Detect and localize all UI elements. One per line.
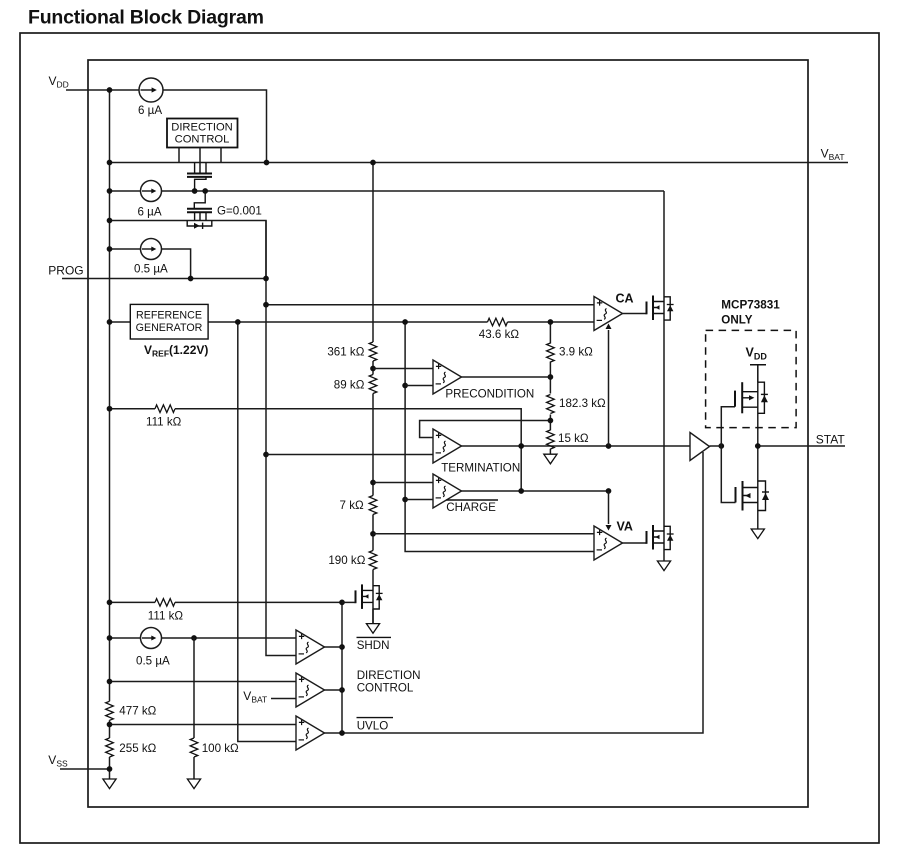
junction (521.2,446) <box>518 443 524 449</box>
svg-text:SHDN: SHDN <box>357 639 390 652</box>
junction (109.5,249) <box>107 246 113 252</box>
junction (109.5,602.4) <box>107 600 113 606</box>
wire mosfet rail 664 <box>663 191 665 561</box>
junction (266,278.5) <box>263 276 269 282</box>
junction (608.5,446) <box>606 443 612 449</box>
svg-text:255 kΩ: 255 kΩ <box>119 742 156 755</box>
buffer U8 <box>690 433 710 461</box>
ground below shdn fet <box>366 624 379 634</box>
junction (342,602.4) <box>339 600 345 606</box>
junction (109.5,220.5) <box>107 218 113 224</box>
junction (194,638) <box>191 635 197 641</box>
junction (194.6,191) <box>192 188 198 194</box>
transistor Q2 sense fet G=0.001 <box>187 191 212 229</box>
arrow into VA <box>606 491 612 531</box>
pin PROG wire <box>62 278 266 280</box>
ground below 15k <box>544 454 557 464</box>
current source I4 0.5uA <box>141 628 162 649</box>
wire ca out <box>623 313 647 315</box>
svg-text:0.5 µA: 0.5 µA <box>134 263 168 276</box>
svg-text:CHARGE: CHARGE <box>446 501 496 514</box>
svg-text:15 kΩ: 15 kΩ <box>558 432 589 445</box>
op-amp SHDN <box>296 630 325 664</box>
wire uvlo out <box>325 452 704 733</box>
transistor Q4 CA fet <box>647 296 674 321</box>
svg-text:477 kΩ: 477 kΩ <box>119 705 156 718</box>
wire 0.5uA row <box>110 249 191 279</box>
wire stat drive <box>462 445 691 447</box>
svg-text:STAT: STAT <box>816 433 846 447</box>
dashed box MCP73831 only <box>706 330 797 427</box>
op-amp CA <box>594 297 623 331</box>
wire resistor chain rail <box>372 163 374 624</box>
svg-text:100 kΩ: 100 kΩ <box>202 742 239 755</box>
wire 0.5uA2 row <box>110 637 297 639</box>
current source I1 6uA <box>139 78 163 102</box>
wire termination staple <box>420 421 551 438</box>
wire row3 <box>110 221 267 279</box>
svg-text:ONLY: ONLY <box>721 314 752 327</box>
resistor 89k <box>369 375 377 394</box>
junction (550.4,377) <box>548 374 554 380</box>
current source I2 6uA <box>141 181 162 202</box>
wire precond- <box>405 385 433 387</box>
wire dir out <box>325 689 343 691</box>
resistor 3.9k <box>547 343 555 362</box>
resistor 255k <box>106 738 114 757</box>
svg-text:190 kΩ: 190 kΩ <box>328 554 365 567</box>
svg-text:PROG: PROG <box>48 264 83 278</box>
svg-text:7 kΩ: 7 kΩ <box>340 499 364 512</box>
resistor 182.3k <box>547 395 555 414</box>
svg-text:111 kΩ: 111 kΩ <box>148 610 184 623</box>
ground below VSS <box>103 779 116 789</box>
resistor 111k b <box>155 599 175 607</box>
svg-text:DIRECTION: DIRECTION <box>357 669 421 682</box>
svg-text:DIRECTION: DIRECTION <box>171 122 233 134</box>
junction (373,482.5) <box>370 480 376 486</box>
junction (109.5,408.7) <box>107 406 113 412</box>
svg-text:GENERATOR: GENERATOR <box>136 322 203 334</box>
block REFERENCE GENERATOR <box>130 304 208 339</box>
resistor 477k <box>106 701 114 720</box>
wire buffer out <box>710 445 722 447</box>
pin VSS wire <box>60 769 110 779</box>
resistor 7k <box>369 496 377 515</box>
junction (109.5,769) <box>107 766 113 772</box>
wire vbat stub <box>271 698 296 700</box>
junction (342,690) <box>339 687 345 693</box>
svg-text:CA: CA <box>616 292 634 306</box>
op-amp UVLO <box>296 716 325 750</box>
svg-text:PRECONDITION: PRECONDITION <box>445 388 534 401</box>
junction (109.5,638) <box>107 635 113 641</box>
wire charge+ <box>373 482 433 484</box>
junction (405.1,385.5) <box>402 383 408 389</box>
junction (109.5,724.5) <box>107 722 113 728</box>
transistor Q3 shdn fet <box>342 584 383 623</box>
svg-text:CONTROL: CONTROL <box>357 682 414 695</box>
svg-text:0.5 µA: 0.5 µA <box>136 655 170 668</box>
resistor 43.6k <box>488 318 508 326</box>
wire uvlo+ <box>110 724 297 726</box>
junction (342,733) <box>339 730 345 736</box>
svg-text:UVLO: UVLO <box>357 720 389 733</box>
svg-text:3.9 kΩ: 3.9 kΩ <box>559 346 593 359</box>
transistor Q6 output pmos <box>735 382 768 446</box>
transistor Q5 VA fet <box>647 525 674 550</box>
svg-text:89 kΩ: 89 kΩ <box>334 379 365 392</box>
junction (608.5,491) <box>606 488 612 494</box>
current source I3 0.5uA <box>141 239 162 260</box>
wire term- <box>266 454 433 456</box>
junction (266.5,162.5) <box>264 160 270 166</box>
pin VDD wire <box>66 89 139 91</box>
svg-text:VA: VA <box>617 520 633 534</box>
wire PROG rail down <box>266 221 296 656</box>
junction (373,368.5) <box>370 366 376 372</box>
svg-text:Functional Block Diagram: Functional Block Diagram <box>28 7 264 29</box>
ground below mosfet rail <box>657 561 670 571</box>
resistor 190k <box>369 551 377 570</box>
junction (373,533.8) <box>370 531 376 537</box>
junction (373,162.5) <box>370 160 376 166</box>
node right resistor rail <box>549 322 551 454</box>
transistor Q1 pass fet <box>187 163 212 192</box>
op-amp DIRECTION CONTROL <box>296 673 325 707</box>
op-amp TERMINATION <box>433 429 462 463</box>
svg-text:361 kΩ: 361 kΩ <box>327 346 364 359</box>
svg-text:MCP73831: MCP73831 <box>721 299 780 312</box>
wire precond+ <box>373 368 433 370</box>
svg-text:6 µA: 6 µA <box>138 104 162 117</box>
junction (550.4,420.5) <box>548 418 554 424</box>
junction (109.5,322) <box>107 319 113 325</box>
arrow into CA <box>606 324 612 447</box>
svg-text:TERMINATION: TERMINATION <box>441 462 520 475</box>
wire CA+ <box>266 304 594 306</box>
op-amp PRECONDITION <box>433 360 462 394</box>
junction (342,647) <box>339 644 345 650</box>
wire 111k2 line <box>110 601 343 603</box>
ground below output nmos <box>751 529 764 539</box>
svg-text:6 µA: 6 µA <box>138 206 162 219</box>
junction (190.6,278.5) <box>188 276 194 282</box>
svg-text:182.3 kΩ: 182.3 kΩ <box>559 397 606 410</box>
wire 111k line <box>110 409 522 491</box>
junction (109.5,162.5) <box>107 160 113 166</box>
svg-text:REFERENCE: REFERENCE <box>136 310 202 322</box>
junction (521.2,491) <box>518 488 524 494</box>
wire VREF line <box>110 321 595 323</box>
junction (405.1,322) <box>402 319 408 325</box>
junction (550.4,322) <box>548 319 554 325</box>
junction (109.5,191) <box>107 188 113 194</box>
wire precond out <box>462 376 551 378</box>
wire 100k rail <box>193 638 195 779</box>
svg-text:G=0.001: G=0.001 <box>217 205 262 218</box>
wire gate rail up <box>721 407 735 446</box>
wire left rail <box>109 90 111 769</box>
op-amp CHARGE <box>433 474 462 508</box>
junction (721.3,446) <box>718 443 724 449</box>
resistor 111k a <box>155 405 175 413</box>
transistor Q7 output nmos <box>736 446 770 529</box>
junction (405.1,499.5) <box>402 497 408 503</box>
junction (266,304.7) <box>263 302 269 308</box>
junction (237.8,322) <box>235 319 241 325</box>
wire gate rail down <box>721 446 735 503</box>
chip body rectangle <box>88 60 808 807</box>
resistor 361k <box>369 342 377 361</box>
overline charge <box>446 499 498 501</box>
resistor 15k <box>547 430 555 449</box>
op-amp VA <box>594 526 623 560</box>
pin STAT wire <box>758 445 845 447</box>
wire 6uA row2 <box>110 190 665 192</box>
wire charge out <box>462 490 609 492</box>
junction (205.2,191) <box>202 188 208 194</box>
wire dir+ <box>110 681 297 683</box>
node VBAT line <box>110 162 849 164</box>
wire va+ <box>373 533 594 535</box>
wire charge- <box>405 499 433 501</box>
wire shdn rail <box>341 602 343 733</box>
svg-text:43.6 kΩ: 43.6 kΩ <box>479 328 520 341</box>
wire VREF rail down <box>238 322 296 742</box>
block DIRECTION CONTROL <box>167 119 238 174</box>
resistor 100k <box>190 738 198 757</box>
ground below 100k <box>187 779 200 789</box>
junction (266,454.5) <box>263 452 269 458</box>
wire 43k rail down <box>405 322 594 552</box>
junction (109.5,681.5) <box>107 679 113 685</box>
svg-text:CONTROL: CONTROL <box>175 134 230 146</box>
wire va out <box>623 542 647 544</box>
wire shdn out <box>325 646 343 648</box>
power tap VDD <box>750 365 766 382</box>
junction (757.8,446) <box>755 443 761 449</box>
junction (109.5,90) <box>107 87 113 93</box>
svg-text:111 kΩ: 111 kΩ <box>146 416 182 429</box>
